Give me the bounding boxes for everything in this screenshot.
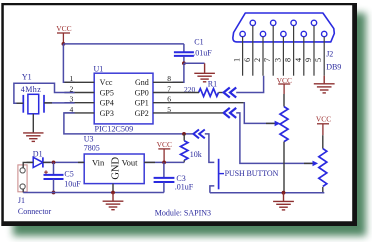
junction dot U3 GND — [111, 191, 115, 195]
DB9 pin circles bottom row — [240, 31, 327, 36]
svg-text:Module: SAPIN3: Module: SAPIN3 — [155, 209, 211, 218]
pin number labels — [70, 74, 172, 114]
capacitor C3 — [154, 162, 194, 192]
wire J1 top to D1 — [23, 162, 33, 167]
junction dot C5 bottom — [52, 191, 56, 195]
crystal Y1 4Mhz — [21, 73, 44, 133]
push button SW — [210, 159, 279, 193]
wire pin 6 to pot P1 wiper — [244, 103, 275, 124]
ground (DB9 pin 5) — [314, 76, 335, 93]
svg-text:VCC: VCC — [157, 140, 172, 149]
svg-text:.01uF: .01uF — [175, 182, 194, 191]
DB9 pin lines — [243, 26, 325, 76]
wire crystal right plate to pin 3 — [44, 102, 75, 104]
potentiometer P2 — [304, 135, 327, 193]
svg-text:8: 8 — [284, 58, 293, 62]
junction dot under C1 — [182, 61, 186, 65]
resistor 10k — [181, 134, 202, 163]
svg-text:J2: J2 — [326, 50, 333, 59]
svg-text:Gnd: Gnd — [135, 78, 149, 87]
svg-text:GP2: GP2 — [135, 109, 149, 118]
wire pin 4 GP3 down and right — [64, 113, 193, 134]
DB9 pin number labels (rotated) — [233, 58, 324, 62]
wire C1 to ground — [184, 62, 205, 64]
DB9 pin circles top row — [250, 20, 317, 25]
svg-text:4Mhz: 4Mhz — [21, 85, 41, 94]
capacitor C5 — [44, 162, 82, 192]
VCC symbol (top left) — [57, 33, 70, 44]
svg-text:J1: J1 — [18, 196, 25, 205]
junction dot VCC/Vout — [162, 161, 166, 165]
svg-text:PUSH BUTTON: PUSH BUTTON — [225, 169, 279, 178]
wire GP3 to push button — [205, 134, 215, 163]
svg-text:GP0: GP0 — [135, 88, 149, 97]
connector J1 — [18, 165, 52, 216]
svg-text:Vin: Vin — [92, 158, 105, 168]
svg-text:R1: R1 — [208, 80, 217, 89]
ground (U3) — [103, 193, 124, 210]
svg-text:C1: C1 — [194, 37, 203, 46]
chevron arrows on R1 net — [224, 88, 237, 98]
wire crystal left plate loop to pin 2 — [14, 83, 75, 103]
svg-text:10uF: 10uF — [64, 179, 81, 188]
ground rail left (J1/C5/U3/C3) — [23, 192, 164, 194]
svg-text:U3: U3 — [84, 134, 94, 143]
U1 right pin stub wires — [153, 82, 244, 113]
regulator U3 7805 — [84, 134, 145, 192]
diode D1 — [33, 150, 43, 168]
wire pin 5 with chevrons to pot P2 wiper — [224, 108, 237, 118]
svg-text:5: 5 — [314, 58, 323, 62]
svg-text:GP1: GP1 — [135, 99, 149, 108]
svg-text:Vcc: Vcc — [100, 78, 113, 87]
wire J1 bottom to rail — [22, 189, 24, 192]
svg-text:Vout: Vout — [122, 158, 139, 168]
potentiometer P1 — [266, 94, 288, 193]
wire VCC down to pin 1 — [63, 44, 74, 82]
svg-text:9: 9 — [304, 58, 313, 62]
svg-text:7805: 7805 — [84, 143, 100, 152]
svg-text:GP4: GP4 — [100, 99, 114, 108]
svg-text:Y1: Y1 — [22, 73, 32, 82]
svg-text:DB9: DB9 — [326, 63, 341, 72]
ground (crystal) — [23, 133, 43, 142]
svg-text:10k: 10k — [190, 150, 202, 159]
junction dot VCC node — [62, 42, 66, 46]
svg-text:Connector: Connector — [18, 207, 52, 216]
svg-text:4: 4 — [294, 58, 303, 62]
svg-text:.01uF: .01uF — [193, 48, 212, 57]
wire U3 Vout to 10k — [144, 161, 184, 163]
svg-text:PIC12C509: PIC12C509 — [95, 125, 134, 134]
ground rail right (push button / pots) — [210, 192, 324, 194]
svg-text:GND: GND — [111, 157, 122, 180]
junction dot C5 top — [52, 161, 56, 165]
svg-text:VCC: VCC — [316, 114, 331, 123]
junction dot ground rail — [282, 191, 286, 195]
capacitor C1 — [174, 37, 212, 63]
wire VCC to C1 — [63, 43, 183, 45]
op IC U1 PIC12C509 — [64, 64, 171, 133]
ground (push button rail) — [273, 193, 294, 210]
svg-text:3: 3 — [273, 58, 282, 62]
pin stubs — [64, 82, 94, 113]
wire C1 down to pin 8 — [173, 63, 184, 82]
svg-text:GP5: GP5 — [100, 88, 114, 97]
svg-text:U1: U1 — [94, 64, 104, 73]
svg-text:6: 6 — [243, 58, 252, 62]
svg-text:1: 1 — [233, 58, 242, 62]
ground (C1) — [194, 63, 215, 82]
svg-text:VCC: VCC — [56, 24, 71, 33]
svg-text:2: 2 — [253, 58, 262, 62]
chevron arrows on GP3 net — [193, 130, 204, 139]
svg-text:7: 7 — [263, 58, 272, 62]
junction dot GP3/10k — [182, 132, 186, 136]
wire D1 to U3 Vin — [43, 161, 84, 163]
resistor R1 220 — [184, 80, 224, 97]
svg-text:GP3: GP3 — [100, 109, 114, 118]
DB9 connector J2 body — [233, 13, 334, 42]
svg-text:C5: C5 — [64, 169, 73, 178]
wire R1 to DB9 pin 2 — [236, 76, 263, 93]
